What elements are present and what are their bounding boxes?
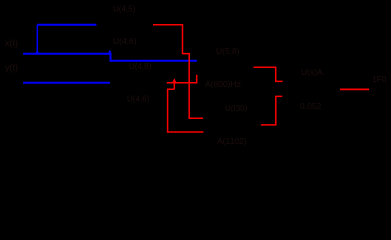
svg-text:U(t30): U(t30): [225, 104, 248, 113]
wire blue horizontal B6: [23, 82, 110, 84]
wire red L-path R2b: [168, 89, 204, 132]
wire red staircase R3: [254, 67, 283, 81]
svg-text:U(4,8): U(4,8): [129, 62, 152, 71]
svg-text:A(1102): A(1102): [217, 136, 247, 146]
svg-text:U(4,6): U(4,6): [127, 95, 150, 104]
svg-text:U(5,8): U(5,8): [216, 46, 240, 56]
wire blue vertical B2: [36, 25, 38, 54]
svg-text:y(t): y(t): [5, 63, 18, 73]
wire red stub and horizontal R2a: [167, 75, 197, 83]
svg-text:1F0: 1F0: [372, 74, 387, 84]
svg-text:U(4,6): U(4,6): [113, 36, 137, 46]
svg-text:A(800)Hz: A(800)Hz: [205, 79, 241, 89]
wire red hook R4: [261, 96, 282, 125]
wire red staircase R1: [153, 25, 203, 119]
svg-text:U(4,5): U(4,5): [113, 5, 136, 14]
svg-text:x(t): x(t): [5, 38, 18, 48]
node red arrowhead pointing up: [172, 78, 176, 82]
wire red arrow shaft: [173, 83, 175, 90]
wire red segment R5: [340, 88, 369, 90]
node arrowhead at B2 base: [36, 50, 40, 54]
node arrowhead at B3 right corner: [108, 50, 111, 53]
wire blue horizontal B1: [37, 24, 96, 26]
svg-text:0.052: 0.052: [300, 101, 322, 111]
wire blue step-down polyline B3-B4-B5: [23, 54, 197, 61]
svg-text:U(s)A.: U(s)A.: [301, 67, 325, 77]
